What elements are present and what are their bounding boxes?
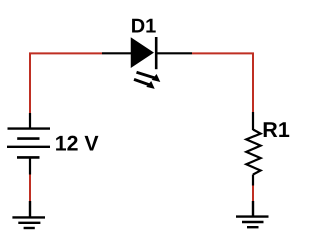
plate 3 (long, +) — [7, 146, 50, 148]
light arrow 2 (lower) — [134, 79, 150, 85]
bar 2 (middle) — [18, 222, 40, 224]
bar 3 (smallest) — [247, 226, 259, 228]
label 12 V (battery value) — [55, 132, 100, 156]
svg-text:12 V: 12 V — [55, 132, 100, 156]
wire W1: battery + terminal up and across to LED D1 anode (red L-shape) — [30, 53, 102, 114]
wire W4: resistor R1 bottom down to right ground (red) — [252, 185, 254, 202]
label D1 — [131, 15, 157, 37]
bar 1 (widest) — [12, 216, 45, 218]
pin: bottom lead — [29, 157, 31, 174]
wire W3: battery - terminal down to left ground (red) — [29, 174, 31, 202]
zigzag body — [246, 130, 260, 175]
ground GND2 (right, under resistor R1) — [236, 201, 269, 227]
ground GND1 (left, under battery) — [12, 201, 45, 228]
pin: ground lead — [29, 201, 31, 217]
svg-text:R1: R1 — [262, 118, 290, 142]
label R1 — [262, 118, 290, 142]
bar 1 (widest) — [236, 215, 269, 217]
wire W2: LED D1 cathode across and down to resistor R1 top (red L-shape) — [192, 53, 253, 113]
pin: cathode lead — [156, 52, 192, 54]
light arrow 1 (upper) — [137, 72, 155, 78]
plate 1 (long, +) — [8, 127, 51, 129]
bar 2 (middle) — [242, 221, 264, 223]
pin: top lead — [252, 112, 254, 130]
pin: anode lead — [102, 52, 132, 54]
pin: top lead — [29, 113, 31, 129]
plate 2 (short, -) — [17, 137, 39, 140]
LED D1 (anode pin, filled triangle, cathode bar, cathode pin, light arrows) — [102, 37, 192, 89]
pin: bottom lead — [252, 175, 254, 186]
plate 4 (short, -) — [17, 156, 40, 159]
svg-text:D1: D1 — [131, 15, 157, 37]
battery V1 (two-cell symbol) — [7, 113, 50, 175]
resistor R1 (vertical zigzag) — [246, 112, 260, 186]
triangle body — [132, 39, 153, 67]
pin: ground lead — [252, 201, 254, 217]
cathode bar — [155, 37, 158, 69]
bar 3 (smallest) — [24, 227, 35, 229]
